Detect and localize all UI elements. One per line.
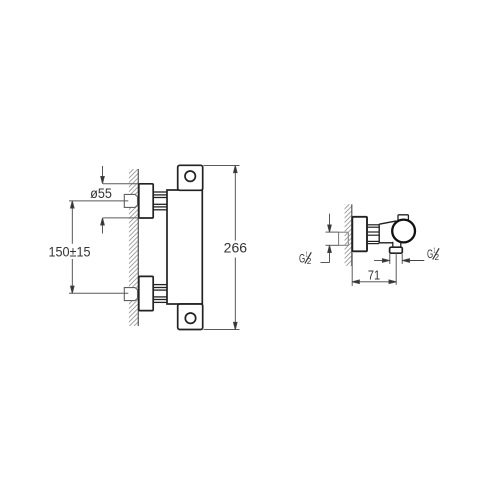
svg-text:G: G [299, 253, 305, 265]
dim 266 extension lines [204, 166, 240, 330]
wall line (side view) [351, 204, 353, 265]
svg-text:266: 266 [224, 241, 247, 256]
side inlet dim arrows [321, 214, 332, 263]
wall line (left view) [137, 169, 139, 326]
knob button [398, 215, 408, 221]
dim 266 line and arrows [234, 166, 238, 330]
svg-text:71: 71 [368, 269, 380, 283]
svg-text:G: G [427, 249, 433, 261]
dim 71 extension lines [352, 253, 396, 286]
wall hatching (left view) [124, 158, 140, 341]
svg-text:150±15: 150±15 [49, 244, 91, 259]
bottom bracket hole [185, 313, 195, 323]
centre extension lines 150 [69, 201, 128, 293]
svg-text:2: 2 [307, 256, 312, 266]
wall inlet connector (behind wall hatch) [339, 232, 349, 245]
valve cone [379, 221, 396, 243]
dim o55 arrows [101, 166, 105, 234]
knob (circle) [392, 220, 415, 243]
top bracket hole [185, 171, 195, 181]
mixer body [167, 190, 202, 304]
top union nut [124, 194, 137, 207]
valve threads (side) [368, 225, 379, 244]
outlet nut [390, 247, 403, 253]
bottom union nut [124, 288, 137, 301]
top inlet threads [153, 192, 167, 210]
svg-text:ø55: ø55 [90, 186, 112, 201]
dim o55 extension lines [103, 184, 139, 218]
bottom inlet threads [153, 285, 167, 303]
side inlet dim extension lines [326, 232, 339, 245]
top inlet block [139, 184, 153, 218]
dim 150+-15 line and arrows [71, 201, 75, 293]
escutcheon plate (side) [352, 217, 367, 252]
outlet width arrows (G1/2 right) [374, 254, 424, 264]
svg-text:2: 2 [435, 252, 440, 262]
label G1/2 right [427, 246, 439, 262]
outlet neck [393, 242, 401, 248]
bottom mounting bracket [178, 304, 203, 330]
bottom inlet block [139, 276, 153, 310]
top mounting bracket [178, 165, 203, 190]
label G1/2 left [299, 250, 312, 266]
wall hatching (side view) [340, 195, 354, 277]
dim 71 line and arrows [352, 280, 396, 284]
